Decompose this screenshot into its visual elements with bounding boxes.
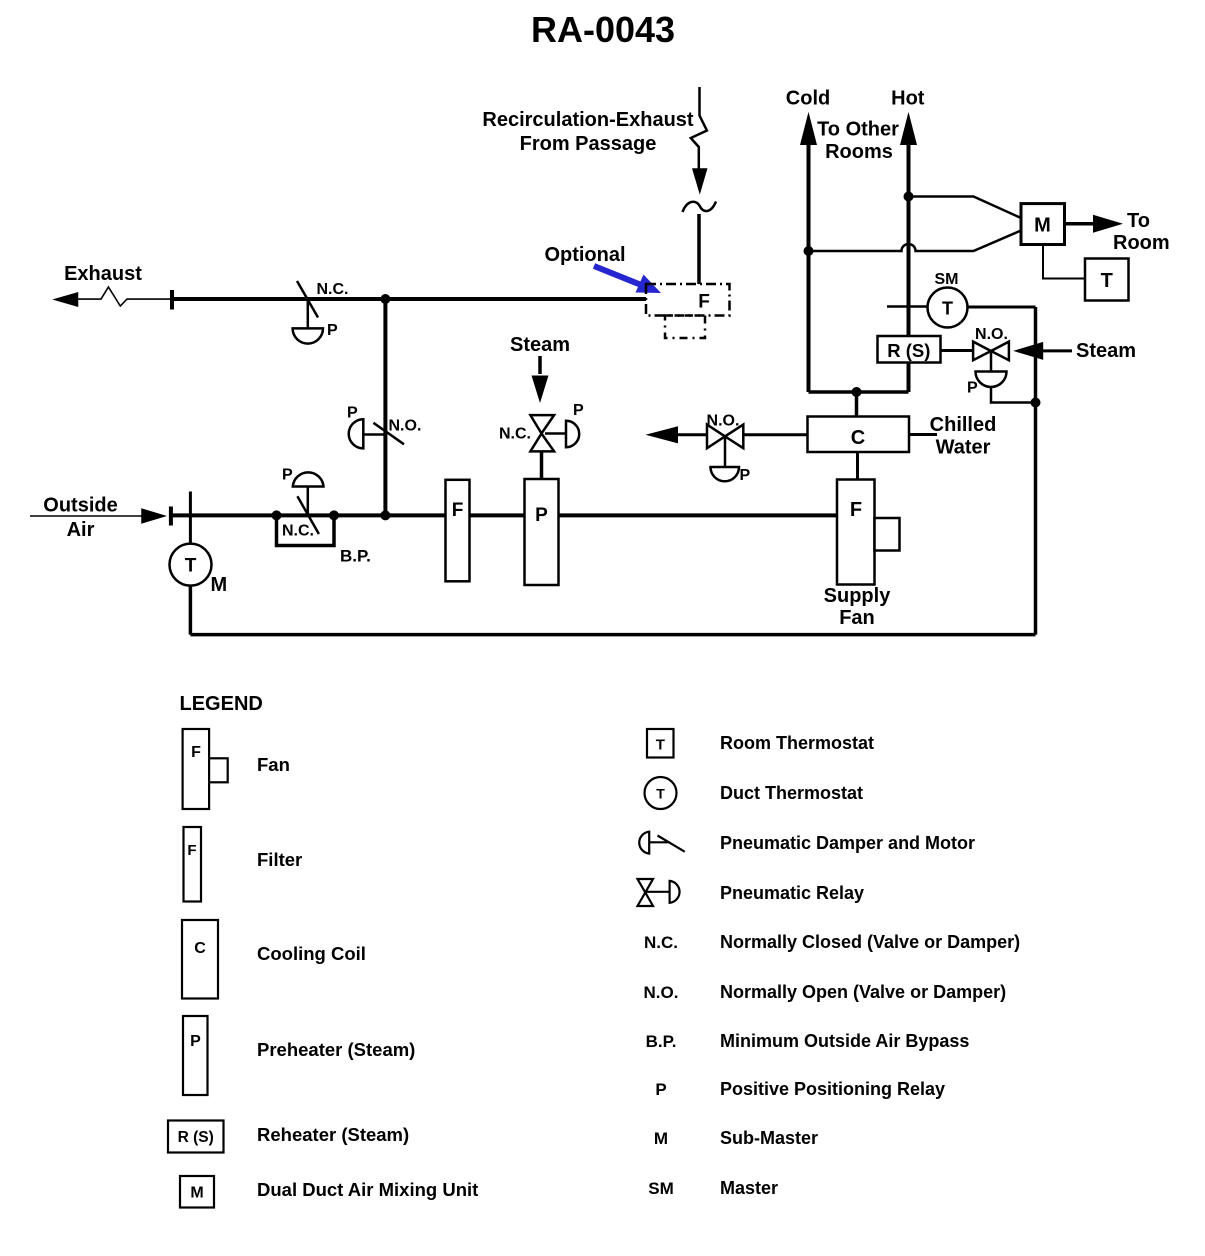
svg-text:Outside: Outside bbox=[43, 495, 117, 517]
valve N.O. chilled stem bbox=[724, 436, 727, 467]
svg-text:Normally Closed (Valve or Damp: Normally Closed (Valve or Damper) bbox=[720, 932, 1020, 952]
wire cold deck riser bbox=[807, 141, 811, 392]
svg-text:Room Thermostat: Room Thermostat bbox=[720, 733, 874, 753]
svg-text:From Passage: From Passage bbox=[520, 133, 657, 155]
legend preheater symbol bbox=[183, 1016, 208, 1095]
svg-text:F: F bbox=[698, 292, 710, 313]
wire steam supply down bbox=[538, 356, 542, 374]
svg-text:Filter: Filter bbox=[257, 849, 302, 870]
wire outside air tail bbox=[30, 515, 143, 517]
wire recirculation inlet with zigzag break bbox=[691, 87, 707, 170]
svg-text:N.O.: N.O. bbox=[707, 413, 740, 430]
svg-text:Steam: Steam bbox=[510, 334, 570, 356]
svg-text:Water: Water bbox=[936, 437, 991, 459]
svg-text:P: P bbox=[573, 402, 584, 419]
svg-text:B.P.: B.P. bbox=[340, 547, 371, 566]
svg-text:B.P.: B.P. bbox=[646, 1032, 677, 1051]
svg-text:SM: SM bbox=[935, 271, 959, 288]
svg-text:Pneumatic Damper and Motor: Pneumatic Damper and Motor bbox=[720, 833, 975, 853]
legend duct thermostat symbol bbox=[645, 777, 677, 809]
arrowhead chilled water return left bbox=[646, 426, 679, 443]
svg-text:T: T bbox=[185, 556, 197, 577]
wire mixing funnel bottom with hop bbox=[809, 231, 1022, 252]
damper N.C. exhaust actuator dome P bbox=[293, 328, 323, 343]
svg-text:N.C.: N.C. bbox=[499, 426, 531, 443]
svg-text:R (S): R (S) bbox=[178, 1129, 214, 1146]
svg-text:RA-0043: RA-0043 bbox=[531, 9, 675, 50]
wire B.P. bypass loop bbox=[277, 515, 335, 545]
node junction exhaust/relief riser bbox=[380, 294, 390, 304]
valve N.O. chilled water (bowtie) bbox=[707, 425, 743, 449]
arrowhead steam down bbox=[532, 376, 549, 404]
wire steam supply bbox=[1043, 349, 1072, 352]
svg-text:Fan: Fan bbox=[257, 754, 290, 775]
legend pneumatic damper and motor symbol bbox=[639, 832, 684, 854]
svg-text:N.O.: N.O. bbox=[975, 326, 1008, 343]
legend reheater symbol bbox=[168, 1121, 224, 1153]
label To Other Rooms bbox=[817, 119, 899, 164]
svg-text:P: P bbox=[327, 322, 338, 339]
label Chilled Water bbox=[930, 414, 997, 459]
svg-text:To: To bbox=[1127, 210, 1150, 232]
svg-text:F: F bbox=[191, 744, 201, 761]
svg-text:Minimum Outside Air Bypass: Minimum Outside Air Bypass bbox=[720, 1031, 969, 1051]
svg-text:C: C bbox=[194, 940, 206, 957]
damper N.C. exhaust actuator stem bbox=[307, 301, 310, 328]
svg-text:P: P bbox=[282, 466, 293, 483]
damper N.O. recirculation blade bbox=[373, 423, 404, 445]
svg-text:P: P bbox=[535, 505, 548, 526]
wire master thermostat to control riser bbox=[968, 306, 1036, 309]
svg-text:Master: Master bbox=[720, 1178, 778, 1198]
legend fan symbol bbox=[183, 729, 228, 809]
svg-text:Sub-Master: Sub-Master bbox=[720, 1128, 818, 1148]
preheater P box bbox=[525, 479, 559, 585]
svg-text:M: M bbox=[190, 1185, 203, 1202]
damper N.C. exhaust (blade) bbox=[297, 281, 318, 318]
wire deck header bbox=[809, 390, 909, 394]
svg-text:N.C.: N.C. bbox=[644, 933, 678, 952]
svg-text:SM: SM bbox=[648, 1179, 674, 1198]
valve N.C. preheater steam (bowtie) bbox=[530, 415, 554, 451]
valve N.O. reheat steam (bowtie) bbox=[973, 342, 1009, 361]
node hot deck takeoff bbox=[904, 192, 914, 202]
damper N.O. recirculation dome P bbox=[349, 419, 364, 448]
wire thermostat down to control main bbox=[189, 586, 193, 635]
node cold deck takeoff bbox=[804, 246, 814, 256]
wire exhaust zigzag tail bbox=[77, 287, 172, 306]
optional fan outlet dashed box bbox=[665, 316, 705, 339]
wire reheater to steam valve bbox=[941, 349, 974, 352]
wire chilled water return bbox=[676, 433, 707, 436]
node header to coil junction bbox=[852, 387, 862, 397]
svg-text:N.O.: N.O. bbox=[644, 983, 679, 1002]
svg-text:P: P bbox=[190, 1033, 201, 1050]
svg-text:LEGEND: LEGEND bbox=[180, 693, 263, 715]
wire relief riser bbox=[383, 299, 387, 515]
arrowhead exhaust left bbox=[55, 293, 78, 306]
cooling coil C box bbox=[808, 417, 910, 453]
duct thermostat T (SM) circle bbox=[928, 288, 968, 328]
svg-text:T: T bbox=[656, 737, 665, 754]
svg-text:Fan: Fan bbox=[839, 607, 875, 629]
label To Room bbox=[1113, 210, 1170, 254]
duct thermostat T (M) circle bbox=[170, 544, 212, 586]
arrowhead cold riser up bbox=[800, 112, 817, 145]
legend pneumatic relay symbol bbox=[638, 879, 680, 906]
svg-text:F: F bbox=[187, 842, 196, 859]
svg-text:Cooling Coil: Cooling Coil bbox=[257, 943, 366, 964]
node relief riser to OA duct junction bbox=[380, 510, 390, 520]
wire control riser right bbox=[1034, 307, 1038, 635]
valve N.C. actuator dome P bbox=[566, 421, 579, 447]
arrowhead recirculation down bbox=[693, 169, 707, 192]
wire mixing unit to room thermostat bbox=[1043, 245, 1085, 279]
svg-text:Duct Thermostat: Duct Thermostat bbox=[720, 783, 863, 803]
damper N.C. bypass dome P bbox=[293, 472, 324, 486]
duct break tilde bbox=[683, 202, 717, 213]
tick exhaust duct start bbox=[170, 290, 174, 310]
svg-text:Steam: Steam bbox=[1076, 340, 1136, 362]
arrowhead hot riser up bbox=[900, 112, 917, 145]
mixing unit M box bbox=[1021, 204, 1065, 245]
wire chilled water supply bbox=[909, 433, 937, 436]
svg-text:Reheater (Steam): Reheater (Steam) bbox=[257, 1124, 409, 1145]
wire control main bottom bbox=[190, 633, 1035, 637]
svg-text:Air: Air bbox=[67, 519, 95, 541]
svg-text:M: M bbox=[1034, 215, 1051, 237]
wire chilled valve to cooling coil bbox=[743, 433, 807, 436]
room thermostat T box bbox=[1085, 259, 1129, 301]
wire mixing funnel top bbox=[909, 197, 1022, 219]
legend room thermostat symbol bbox=[647, 729, 674, 758]
tick outside air duct start bbox=[169, 507, 173, 526]
wire reheat actuator to control riser bbox=[991, 387, 1036, 403]
arrowhead outside air right bbox=[142, 509, 164, 523]
svg-text:F: F bbox=[850, 499, 862, 521]
svg-text:M: M bbox=[211, 574, 228, 596]
valve N.O. reheat dome P bbox=[976, 372, 1007, 387]
wire cooling coil to supply fan bbox=[856, 452, 859, 480]
optional arrow (blue) bbox=[594, 266, 661, 293]
filter F box bbox=[446, 480, 470, 582]
svg-text:Optional: Optional bbox=[544, 244, 625, 266]
reheater R (S) box bbox=[878, 336, 941, 363]
label Supply Fan bbox=[824, 585, 892, 629]
svg-text:R (S): R (S) bbox=[887, 340, 930, 361]
svg-text:Normally Open (Valve or Damper: Normally Open (Valve or Damper) bbox=[720, 982, 1006, 1002]
svg-text:Supply: Supply bbox=[824, 585, 892, 607]
wire outside air duct bbox=[171, 513, 837, 517]
wire header to cooling coil bbox=[855, 392, 859, 417]
damper N.C. bypass blade bbox=[297, 496, 319, 534]
svg-text:Exhaust: Exhaust bbox=[64, 263, 142, 285]
svg-text:C: C bbox=[851, 427, 865, 449]
arrowhead to room bbox=[1093, 215, 1123, 233]
valve N.O. reheat stem bbox=[990, 351, 993, 372]
node B.P. right junction bbox=[329, 510, 339, 520]
svg-text:Cold: Cold bbox=[786, 88, 830, 110]
legend mixing unit symbol bbox=[180, 1176, 214, 1208]
svg-text:To Other: To Other bbox=[817, 119, 899, 141]
legend filter symbol bbox=[184, 827, 202, 902]
supply fan F box bbox=[837, 480, 875, 585]
svg-text:T: T bbox=[942, 299, 953, 319]
svg-text:P: P bbox=[967, 380, 978, 397]
svg-text:F: F bbox=[452, 500, 464, 521]
svg-text:P: P bbox=[740, 467, 751, 484]
svg-text:T: T bbox=[656, 786, 665, 802]
svg-text:N.C.: N.C. bbox=[282, 523, 314, 540]
optional fan F dashed box bbox=[646, 284, 730, 316]
label Recirculation-Exhaust From Passage bbox=[482, 109, 694, 155]
svg-text:P: P bbox=[655, 1080, 666, 1099]
svg-text:Hot: Hot bbox=[891, 88, 925, 110]
sensor line master thermostat bbox=[887, 305, 928, 308]
sensor stem duct thermostat OA bbox=[189, 492, 192, 545]
label Outside Air bbox=[43, 495, 117, 542]
svg-text:Rooms: Rooms bbox=[825, 141, 893, 163]
svg-text:P: P bbox=[347, 405, 358, 422]
wire valve to preheater bbox=[540, 451, 544, 479]
svg-text:Preheater (Steam): Preheater (Steam) bbox=[257, 1039, 415, 1060]
svg-text:Dual Duct Air Mixing Unit: Dual Duct Air Mixing Unit bbox=[257, 1179, 478, 1200]
wire hot deck riser bbox=[907, 141, 911, 392]
wire mixing unit outlet bbox=[1065, 222, 1096, 226]
damper N.C. bypass stem bbox=[307, 487, 310, 516]
svg-text:N.O.: N.O. bbox=[389, 418, 422, 435]
supply fan outlet box bbox=[875, 518, 900, 551]
wire recirc to optional fan bbox=[697, 214, 701, 284]
node control riser junction bbox=[1031, 398, 1041, 408]
legend cooling coil symbol bbox=[182, 920, 218, 999]
arrowhead steam supply left bbox=[1013, 342, 1043, 360]
wire exhaust duct bbox=[172, 297, 646, 301]
svg-text:T: T bbox=[1101, 270, 1113, 292]
node B.P. left junction bbox=[272, 510, 282, 520]
svg-text:Chilled: Chilled bbox=[930, 414, 997, 436]
svg-text:N.C.: N.C. bbox=[317, 281, 349, 298]
valve N.C. actuator link bbox=[545, 432, 566, 435]
damper N.O. recirculation link bbox=[363, 433, 385, 436]
svg-text:Recirculation-Exhaust: Recirculation-Exhaust bbox=[482, 109, 694, 131]
svg-text:Room: Room bbox=[1113, 232, 1170, 254]
svg-text:M: M bbox=[654, 1129, 668, 1148]
svg-text:Positive Positioning Relay: Positive Positioning Relay bbox=[720, 1079, 945, 1099]
valve N.O. chilled dome P bbox=[711, 467, 740, 481]
svg-text:Pneumatic Relay: Pneumatic Relay bbox=[720, 883, 864, 903]
